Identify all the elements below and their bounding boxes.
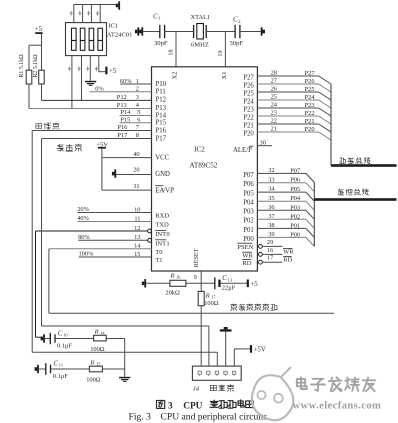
- svg-text:1: 1: [136, 78, 139, 85]
- svg-text:GND: GND: [155, 171, 170, 178]
- svg-text:P21: P21: [243, 122, 254, 129]
- svg-text:23: 23: [271, 110, 277, 117]
- svg-text:C: C: [222, 275, 227, 282]
- svg-text:29: 29: [267, 239, 273, 246]
- svg-text:5: 5: [137, 109, 140, 116]
- svg-text:P15: P15: [156, 120, 167, 127]
- svg-text:+5: +5: [109, 68, 117, 75]
- svg-text:P22: P22: [243, 114, 254, 121]
- svg-text:INT: INT: [155, 231, 166, 238]
- svg-text:40%: 40%: [77, 215, 89, 222]
- svg-text:36: 36: [268, 204, 274, 211]
- svg-text:+5: +5: [35, 26, 43, 33]
- svg-text:/VP: /VP: [163, 187, 174, 194]
- svg-text:VCC: VCC: [155, 154, 169, 161]
- svg-text:P26: P26: [243, 82, 254, 89]
- svg-text:CPU: CPU: [183, 401, 202, 411]
- svg-text:P13: P13: [117, 102, 127, 109]
- svg-text:IC2: IC2: [194, 146, 205, 154]
- svg-text:26: 26: [271, 86, 277, 93]
- svg-text:22μF: 22μF: [222, 284, 236, 291]
- svg-text:P24: P24: [243, 98, 254, 105]
- svg-text:R: R: [170, 273, 175, 280]
- svg-text:AT89C52: AT89C52: [190, 162, 218, 170]
- svg-text:30pF: 30pF: [230, 40, 244, 47]
- svg-text:R2 5.1kΩ: R2 5.1kΩ: [33, 54, 39, 78]
- svg-text:RXD: RXD: [155, 213, 169, 220]
- svg-text:R1 5.1kΩ: R1 5.1kΩ: [19, 54, 25, 78]
- svg-text:6MHZ: 6MHZ: [191, 42, 209, 49]
- svg-text:27: 27: [271, 78, 278, 85]
- svg-text:6: 6: [137, 117, 140, 124]
- svg-text:28: 28: [271, 70, 277, 77]
- svg-text:100Ω: 100Ω: [86, 376, 101, 383]
- svg-text:11: 11: [59, 363, 63, 368]
- svg-text:P05: P05: [243, 191, 254, 198]
- svg-text:P02: P02: [243, 218, 254, 225]
- svg-text:INT: INT: [155, 241, 166, 248]
- svg-text:P14: P14: [156, 112, 167, 119]
- svg-text:P11: P11: [156, 89, 166, 96]
- svg-text:P12: P12: [117, 94, 127, 101]
- svg-text:P21: P21: [305, 118, 315, 125]
- svg-text:20kΩ: 20kΩ: [165, 289, 180, 296]
- svg-text:17: 17: [267, 255, 274, 262]
- svg-text:P06: P06: [290, 177, 300, 184]
- svg-text:12: 12: [134, 225, 140, 232]
- svg-text:19: 19: [217, 50, 224, 56]
- svg-text:P03: P03: [290, 204, 300, 211]
- svg-text:3: 3: [168, 400, 173, 410]
- svg-text:R: R: [205, 292, 210, 299]
- svg-text:0.1μF: 0.1μF: [53, 373, 68, 380]
- svg-text:AT24C01: AT24C01: [107, 32, 133, 39]
- svg-text:37: 37: [268, 213, 275, 220]
- svg-text:0%: 0%: [95, 85, 104, 92]
- svg-text:RD: RD: [242, 260, 251, 267]
- svg-text:P05: P05: [290, 186, 300, 193]
- svg-text:J4: J4: [193, 385, 200, 392]
- svg-text:RESET: RESET: [193, 248, 200, 267]
- svg-text:8: 8: [136, 132, 139, 139]
- svg-text:80%: 80%: [78, 234, 90, 241]
- svg-text:P23: P23: [305, 102, 315, 109]
- svg-text:15: 15: [134, 251, 140, 258]
- svg-text:P12: P12: [156, 97, 167, 104]
- svg-text:P06: P06: [243, 181, 254, 188]
- svg-text:16: 16: [267, 247, 273, 254]
- svg-text:C: C: [53, 360, 58, 367]
- svg-text:RD: RD: [283, 257, 292, 264]
- svg-text:22: 22: [271, 118, 277, 125]
- svg-text:P04: P04: [243, 200, 254, 207]
- svg-text:100Ω: 100Ω: [204, 300, 219, 307]
- svg-text:20: 20: [133, 167, 139, 174]
- svg-text:33: 33: [268, 176, 274, 183]
- svg-text:40: 40: [133, 151, 139, 158]
- svg-text:25: 25: [271, 94, 277, 101]
- svg-text:P17: P17: [117, 132, 128, 139]
- svg-text:P24: P24: [305, 94, 316, 101]
- svg-text:1: 1: [166, 241, 169, 248]
- svg-text:P23: P23: [243, 106, 254, 113]
- svg-text:P20: P20: [243, 130, 254, 137]
- svg-text:TXD: TXD: [155, 222, 169, 229]
- svg-text:P16: P16: [117, 124, 127, 131]
- svg-text:38: 38: [268, 222, 274, 229]
- svg-text:100%: 100%: [79, 251, 95, 258]
- svg-text:IC1: IC1: [108, 22, 118, 29]
- svg-text:P15: P15: [120, 117, 130, 124]
- svg-text:60%: 60%: [120, 78, 132, 85]
- svg-text:10: 10: [134, 206, 140, 213]
- svg-text:14: 14: [134, 243, 141, 250]
- svg-text:T0: T0: [155, 249, 163, 256]
- svg-text:34: 34: [268, 186, 275, 193]
- svg-text:31: 31: [133, 183, 139, 190]
- svg-text:21: 21: [271, 126, 277, 133]
- svg-text:ALE/P: ALE/P: [233, 147, 252, 154]
- svg-text:P02: P02: [290, 213, 300, 220]
- svg-text:3: 3: [136, 94, 139, 101]
- svg-text:C: C: [153, 12, 158, 20]
- svg-text:P27: P27: [243, 74, 254, 81]
- svg-text:X1: X1: [221, 72, 228, 80]
- svg-text:P01: P01: [243, 227, 254, 234]
- svg-text:32: 32: [268, 167, 274, 174]
- svg-text:www.elecfans.com: www.elecfans.com: [293, 401, 382, 412]
- svg-text:0.1μF: 0.1μF: [57, 342, 72, 349]
- svg-text:PSEN: PSEN: [237, 244, 253, 251]
- svg-text:+5V: +5V: [254, 347, 266, 354]
- svg-text:11: 11: [134, 215, 140, 222]
- svg-text:X2: X2: [172, 72, 179, 80]
- svg-text:P20: P20: [305, 126, 315, 133]
- svg-text:P22: P22: [305, 110, 315, 117]
- svg-text:P25: P25: [243, 90, 254, 97]
- svg-text:30pF: 30pF: [154, 40, 168, 47]
- svg-text:XTAL1: XTAL1: [191, 14, 211, 21]
- svg-text:P16: P16: [156, 127, 167, 134]
- svg-text:P07: P07: [243, 172, 254, 179]
- svg-text:P07: P07: [290, 167, 301, 174]
- svg-text:P17: P17: [156, 135, 167, 142]
- svg-text:100Ω: 100Ω: [90, 346, 105, 353]
- svg-text:39: 39: [268, 231, 274, 238]
- svg-text:T1: T1: [155, 257, 162, 264]
- svg-text:P04: P04: [290, 195, 301, 202]
- svg-text:C: C: [233, 16, 238, 24]
- svg-text:C: C: [58, 330, 63, 337]
- svg-text:P14: P14: [120, 109, 131, 116]
- svg-text:P00: P00: [290, 231, 300, 238]
- svg-text:P26: P26: [305, 78, 315, 85]
- svg-text:2: 2: [136, 86, 139, 93]
- svg-text:R: R: [94, 328, 99, 335]
- svg-text:20%: 20%: [77, 206, 89, 213]
- svg-text:P13: P13: [156, 105, 167, 112]
- svg-text:P10: P10: [156, 81, 167, 88]
- svg-text:Fig. 3 CPU and peripheral cir: Fig. 3 CPU and peripheral circuits: [129, 412, 268, 423]
- svg-text:18: 18: [168, 49, 175, 55]
- svg-text:WR: WR: [283, 249, 294, 256]
- svg-text:9: 9: [194, 274, 197, 281]
- svg-text:R: R: [89, 359, 94, 366]
- svg-text:P01: P01: [290, 222, 300, 229]
- svg-text:P25: P25: [305, 86, 315, 93]
- svg-text:+5: +5: [250, 281, 258, 288]
- svg-text:WR: WR: [242, 253, 253, 260]
- svg-text:P27: P27: [305, 70, 316, 77]
- svg-text:13: 13: [134, 234, 140, 241]
- svg-text:30: 30: [260, 140, 266, 147]
- svg-text:P00: P00: [243, 236, 254, 243]
- svg-text:35: 35: [268, 195, 274, 202]
- svg-text:P03: P03: [243, 209, 254, 216]
- svg-text:24: 24: [271, 102, 278, 109]
